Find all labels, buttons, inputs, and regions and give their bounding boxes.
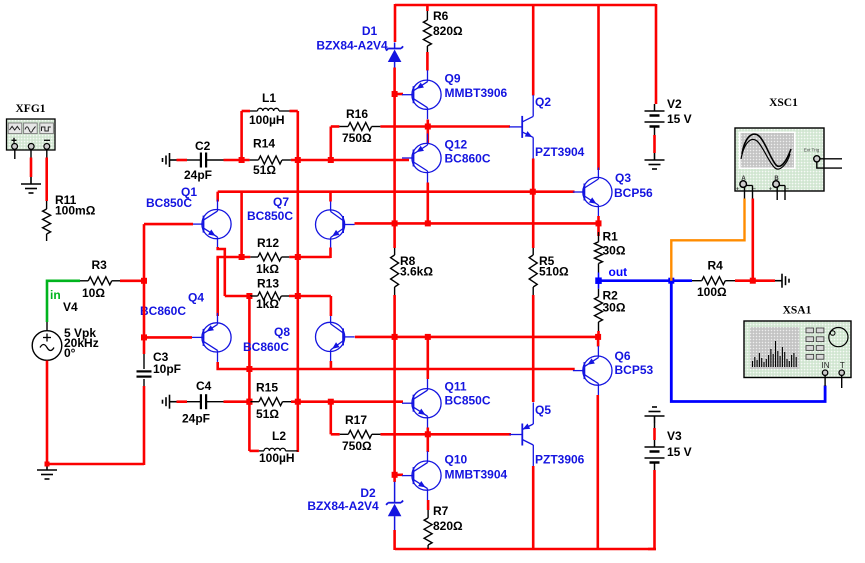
- wire: Q7 base row y=223.4 to Q3 emitter: [355, 222, 599, 225]
- ground (left of C4, sideways): [170, 401, 177, 403]
- wire: XFG1 - pin down to R11: [46, 149, 48, 158]
- wire: V3 ground stem: [654, 423, 656, 428]
- wire: R5 to Q5 collector: [532, 295, 535, 402]
- svg-text:51Ω: 51Ω: [256, 407, 279, 421]
- transistor Q1 BC850C (NPN): [202, 210, 231, 239]
- resistor R3 10 ohm: [80, 280, 88, 282]
- svg-text:R3: R3: [92, 258, 108, 272]
- transistor Q9 MMBT3906 (PNP): [412, 80, 441, 109]
- svg-text:100mΩ: 100mΩ: [55, 204, 96, 218]
- wire: Q6 collector from row 336.9: [597, 337, 600, 347]
- wire: R12 row y=257: [216, 256, 250, 259]
- resistor R7 820 ohm (vertical): [427, 510, 429, 518]
- svg-text:30Ω: 30Ω: [603, 244, 626, 258]
- resistor R5 510 ohm (vertical): [532, 248, 534, 255]
- svg-text:PZT3906: PZT3906: [535, 453, 585, 467]
- transistor Q12 BC860C (PNP): [412, 143, 441, 172]
- wire: Q7 collector up to row 191.7: [329, 192, 332, 202]
- resistor R17 750 ohm: [340, 433, 349, 435]
- wire: Q11 collector from Q8 base row: [426, 337, 429, 379]
- svg-text:R4: R4: [708, 259, 724, 273]
- svg-text:L1: L1: [262, 91, 276, 105]
- svg-text:C4: C4: [196, 379, 212, 393]
- svg-text:BZX84-A2V4: BZX84-A2V4: [307, 499, 379, 513]
- svg-text:R14: R14: [253, 137, 275, 151]
- wire: Q2 emitter down rail x=533 through R5 to Q5: [532, 159, 535, 249]
- svg-text:MMBT3904: MMBT3904: [445, 468, 508, 482]
- svg-text:100Ω: 100Ω: [697, 285, 727, 299]
- transistor Q5 PZT3906 (PNP, no circle): [521, 424, 523, 446]
- svg-text:1kΩ: 1kΩ: [256, 297, 279, 311]
- svg-text:750Ω: 750Ω: [342, 439, 372, 453]
- ground below XFG1: [30, 177, 32, 184]
- svg-text:10Ω: 10Ω: [82, 286, 105, 300]
- svg-text:BC850C: BC850C: [247, 209, 293, 223]
- wire: top supply rail: [395, 4, 656, 7]
- svg-text:Q11: Q11: [445, 380, 467, 394]
- svg-text:−: −: [753, 187, 756, 193]
- instrument XSA1 spectrum analyzer: [744, 321, 851, 378]
- wire: rail x=598.5 top rail to Q3 collector: [597, 4, 600, 170]
- svg-text:Ext Trig: Ext Trig: [804, 148, 820, 153]
- source V4 sine 5Vpk 20kHz: [46, 322, 48, 331]
- wire: R2 to Q8 base row: [597, 331, 600, 337]
- wire: C4/R15 row y=401.7: [177, 400, 188, 403]
- diode D1 BZX84-A2V4 (zener): [394, 43, 396, 49]
- svg-text:Q2: Q2: [535, 95, 551, 109]
- wire: Q8 emitter down to emitter row: [330, 361, 333, 370]
- svg-text:IN: IN: [822, 361, 830, 370]
- wire: bottom row y=464 from V4 to C3: [47, 463, 144, 466]
- svg-text:V2: V2: [667, 97, 682, 111]
- ground above V3: [654, 416, 656, 423]
- svg-text:15 V: 15 V: [667, 112, 692, 126]
- svg-text:−: −: [786, 187, 789, 193]
- wire: Q4 base row: [144, 336, 192, 339]
- node: Q10 base stub: [395, 473, 403, 476]
- wire: V4 bottom to ground rail: [46, 361, 49, 464]
- svg-text:BC860C: BC860C: [445, 152, 491, 166]
- resistor R2 30 ohm (vertical): [598, 281, 600, 289]
- svg-text:in: in: [50, 288, 61, 302]
- ground (left of C2, sideways): [170, 159, 177, 161]
- resistor R12 1k ohm: [250, 256, 258, 258]
- transistor Q10 MMBT3904 (NPN): [412, 461, 441, 490]
- instrument XFG1 function generator: [7, 119, 56, 150]
- svg-text:10pF: 10pF: [153, 362, 181, 376]
- capacitor C3 10pF (vertical): [143, 354, 145, 369]
- wire: Q9/Q12 junction to Q12 collector: [426, 127, 429, 145]
- node: out row / scope-analyzer tap: [668, 278, 674, 284]
- svg-text:Q9: Q9: [445, 72, 461, 86]
- wire: L1 right tie / long mid rail x=297.8: [296, 111, 299, 452]
- inductor L2 100uH: [249, 450, 259, 453]
- svg-text:V3: V3: [667, 429, 682, 443]
- svg-text:MMBT3906: MMBT3906: [445, 86, 508, 100]
- ground right of R4 (sideways): [775, 280, 782, 282]
- wire: R3 right to rail x=144: [120, 279, 145, 282]
- svg-text:BC860C: BC860C: [243, 340, 289, 354]
- svg-text:XFG1: XFG1: [15, 103, 45, 115]
- wire: rail x=241.6 from collector row to R12 row: [240, 192, 243, 258]
- ground below V2: [654, 153, 656, 160]
- ground below V4: [46, 463, 48, 470]
- svg-text:Q5: Q5: [535, 403, 551, 417]
- wire: green input wire from V4 to R3: [47, 281, 80, 322]
- resistor R11 100m ohm (vertical): [46, 201, 48, 209]
- wire: Q4 emitter to emitter row: [218, 362, 575, 369]
- svg-text:100µH: 100µH: [249, 113, 285, 127]
- svg-text:R13: R13: [257, 277, 279, 291]
- wire: R1 to out node (blue lead): [598, 273, 600, 282]
- svg-text:820Ω: 820Ω: [433, 519, 463, 533]
- wire: R4 right to ground: [735, 279, 775, 282]
- battery V3 15V: [654, 440, 656, 447]
- svg-text:820Ω: 820Ω: [433, 24, 463, 38]
- resistor R8 (vertical, x=395): [394, 248, 396, 255]
- svg-text:R1: R1: [603, 230, 619, 244]
- svg-text:0°: 0°: [64, 346, 76, 360]
- capacitor C4 24pF: [187, 401, 201, 403]
- svg-text:BC860C: BC860C: [140, 304, 186, 318]
- wire: XSC1 A- pin: [752, 186, 754, 199]
- wire: V3 to bottom rail: [648, 470, 655, 549]
- resistor R14 51 ohm: [250, 159, 259, 161]
- svg-text:D2: D2: [360, 486, 376, 500]
- wire: XSC1 A+ pin: [744, 188, 746, 199]
- wire: Q12 emitter down to Q7 base row: [426, 183, 429, 224]
- wire: Q5 lower lead to bottom rail: [532, 466, 535, 550]
- wire: Q9 emitter to R16 row: [426, 120, 429, 129]
- transistor Q11 BC850C (NPN): [412, 389, 441, 418]
- wire: blue from out row down and right to XSA1 IN: [671, 281, 825, 402]
- battery V2 15V: [655, 4, 658, 104]
- wire: Q6 emitter to bottom rail: [596, 395, 599, 550]
- wire: rail from top to D1 (x=395): [394, 4, 397, 42]
- wire: Q1 collector riser: [216, 192, 219, 202]
- wire: R16 row y=126.5: [331, 125, 340, 128]
- svg-text:R17: R17: [345, 413, 367, 427]
- svg-text:R7: R7: [433, 504, 449, 518]
- wire: D2 to bottom rail: [393, 530, 396, 550]
- node: out: [595, 277, 602, 284]
- svg-text:24pF: 24pF: [182, 412, 210, 426]
- wire: out row (blue) from out node to R4: [599, 279, 693, 282]
- svg-text:T: T: [840, 361, 845, 370]
- svg-text:PZT3904: PZT3904: [535, 145, 585, 159]
- resistor R13 1k ohm: [250, 295, 258, 297]
- wire: C3 bottom to row 464: [143, 386, 146, 465]
- transistor Q7 BC850C (NPN, mirrored): [316, 210, 345, 239]
- wire: XFG1 common pin to ground: [30, 149, 32, 158]
- svg-text:Q12: Q12: [445, 138, 468, 152]
- wire: L1 left tie down to R14 row: [240, 111, 243, 161]
- wire: orange from XSC1 channel A down to out row: [671, 199, 744, 282]
- transistor Q4 BC860C (PNP): [202, 323, 231, 352]
- wire: V2 to ground: [653, 135, 656, 153]
- svg-text:Q7: Q7: [273, 195, 289, 209]
- svg-text:51Ω: 51Ω: [253, 163, 276, 177]
- svg-text:BC850C: BC850C: [445, 394, 491, 408]
- wire: Q11 emitter to R17 row junction and Q10 collector: [426, 428, 429, 453]
- svg-text:XSA1: XSA1: [783, 305, 812, 317]
- svg-text:BC850C: BC850C: [146, 196, 192, 210]
- svg-text:R6: R6: [433, 9, 449, 23]
- svg-text:Q10: Q10: [445, 453, 468, 467]
- svg-text:30Ω: 30Ω: [603, 301, 626, 315]
- wire: R6 to Q9 collector: [426, 52, 429, 71]
- wire: XFG1 + pin stub: [14, 149, 16, 159]
- wire: rail x=533 top rail to Q2 collector: [532, 4, 535, 96]
- resistor R6 820 ohm (vertical at x=427.4): [426, 5, 429, 11]
- svg-text:C2: C2: [195, 139, 211, 153]
- svg-text:D1: D1: [362, 24, 378, 38]
- svg-text:BCP56: BCP56: [614, 186, 653, 200]
- wire: R16 corner down to C2 row: [329, 127, 332, 162]
- resistor R4 100 ohm: [692, 280, 702, 282]
- wire: XSA1 T pin (dangling): [841, 375, 843, 388]
- svg-text:XSC1: XSC1: [769, 97, 798, 109]
- wire: C2/R14 row y=160: [177, 159, 188, 162]
- wire: rail x=249.4 from R13 down to L2: [248, 296, 251, 451]
- transistor Q2 PZT3904 (NPN, no circle): [521, 116, 523, 138]
- svg-text:out: out: [609, 265, 628, 279]
- svg-text:Q6: Q6: [615, 349, 631, 363]
- wire: R17 corner up to R15 row: [329, 402, 332, 435]
- wire: XSC1 B pins (dangling): [776, 188, 778, 201]
- capacitor C2 24pF: [187, 159, 201, 161]
- svg-text:R12: R12: [257, 236, 279, 250]
- wire: R13 row y=296: [225, 295, 250, 298]
- svg-text:+: +: [769, 187, 772, 193]
- svg-text:3.6kΩ: 3.6kΩ: [400, 265, 433, 279]
- wire: Q3 emitter to R1 top junction: [597, 216, 600, 236]
- svg-text:24pF: 24pF: [184, 168, 212, 182]
- diode D2 BZX84-A2V4 (zener): [394, 482, 396, 503]
- wire: Q10 emitter to R7: [427, 500, 430, 510]
- wire: R12 row left down to Q4 collector: [216, 257, 219, 316]
- resistor R1 30 ohm (vertical): [598, 232, 600, 242]
- transistor Q3 BCP56 (NPN): [583, 177, 612, 206]
- svg-text:R16: R16: [346, 107, 368, 121]
- inductor L1 100uH: [242, 110, 250, 113]
- node: Q9 base stub: [395, 93, 403, 96]
- svg-text:L2: L2: [272, 429, 286, 443]
- svg-text:1kΩ: 1kΩ: [256, 262, 279, 276]
- svg-text:510Ω: 510Ω: [539, 265, 569, 279]
- wire: Q1 emitter to R13 row: [218, 247, 225, 296]
- svg-text:15 V: 15 V: [667, 445, 692, 459]
- svg-text:BCP53: BCP53: [615, 363, 654, 377]
- svg-text:R15: R15: [256, 381, 278, 395]
- wire: Q1 base row: [144, 223, 193, 226]
- wire: XSA1 IN pin: [824, 375, 826, 386]
- svg-text:V4: V4: [63, 300, 78, 314]
- svg-text:Q4: Q4: [188, 291, 204, 305]
- wire: rail x=395 from R8 down to D2: [393, 295, 396, 482]
- wire: rail x=144 (Q1/Q4 base, C3): [143, 224, 146, 354]
- resistor R15 51 ohm: [251, 401, 260, 403]
- wire: D1 anode down rail x=395 to R8: [393, 68, 396, 249]
- svg-text:BZX84-A2V4: BZX84-A2V4: [316, 39, 388, 53]
- wire: Q1 collector row y=191.7 (to Q3 base): [218, 190, 575, 193]
- wire: R17 row y=434.3: [331, 433, 340, 436]
- wire: red from XSC1 A- pin down to R4 node: [751, 199, 754, 281]
- svg-text:+: +: [736, 187, 739, 193]
- transistor Q8 BC860C (PNP, mirrored): [316, 322, 345, 351]
- svg-text:Q8: Q8: [274, 325, 290, 339]
- wire: Q7 emitter down to R12 row: [329, 248, 332, 259]
- svg-text:750Ω: 750Ω: [342, 131, 372, 145]
- svg-text:Q3: Q3: [615, 171, 631, 185]
- wire: Q8 collector up to R13 row: [330, 296, 333, 316]
- resistor R16 750 ohm: [339, 126, 348, 128]
- svg-text:100µH: 100µH: [259, 451, 295, 465]
- wire: Q8 base row y=336.9: [355, 336, 598, 339]
- instrument XSC1 oscilloscope: [735, 128, 824, 191]
- transistor Q6 BCP53 (PNP): [583, 356, 612, 385]
- wire: bottom supply rail: [395, 548, 656, 551]
